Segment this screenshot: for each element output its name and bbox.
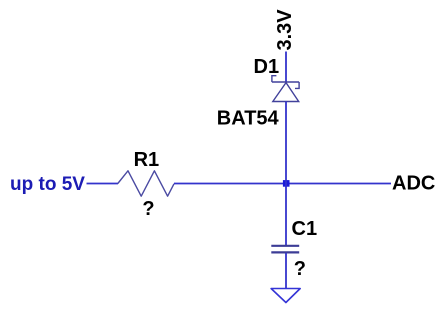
svg-text:?: ? — [142, 198, 154, 220]
wire from node A to ADC label — [286, 183, 391, 185]
svg-text:3.3V: 3.3V — [274, 9, 296, 51]
svg-text:R1: R1 — [134, 149, 160, 171]
wire from capacitor C1 to ground — [285, 253, 287, 289]
ground — [271, 289, 300, 303]
diode D1 (Schottky BAT54) — [272, 76, 299, 102]
wire from node A to capacitor C1 — [285, 184, 287, 246]
svg-text:BAT54: BAT54 — [217, 108, 280, 130]
svg-text:up to 5V: up to 5V — [10, 174, 85, 195]
svg-text:?: ? — [294, 258, 306, 280]
wire from "up to 5V" to resistor R1 left pin — [87, 183, 119, 185]
resistor R1 — [118, 171, 174, 196]
junction node A (solid square) — [283, 180, 290, 187]
wire from diode D1 anode to node A — [285, 102, 287, 184]
svg-text:D1: D1 — [254, 56, 280, 78]
wire from 3.3V to diode D1 cathode — [285, 52, 287, 83]
svg-text:C1: C1 — [292, 218, 318, 240]
capacitor C1 — [271, 246, 299, 253]
wire from resistor R1 to node A — [174, 183, 286, 185]
svg-text:ADC: ADC — [392, 173, 435, 195]
